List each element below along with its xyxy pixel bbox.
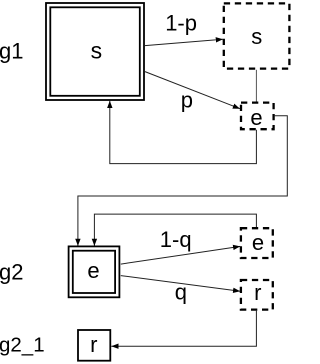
svg-text:1-p: 1-p (165, 10, 197, 35)
svg-text:e: e (252, 230, 264, 255)
svg-text:g2_1: g2_1 (0, 334, 45, 357)
svg-text:g1: g1 (0, 39, 23, 64)
svg-text:g2: g2 (0, 260, 23, 285)
svg-text:e: e (87, 258, 99, 283)
svg-text:r: r (254, 280, 261, 305)
svg-text:s: s (91, 38, 103, 64)
svg-text:r: r (90, 332, 97, 357)
svg-text:e: e (250, 105, 262, 130)
svg-text:1-q: 1-q (160, 227, 192, 252)
svg-text:q: q (175, 280, 187, 305)
svg-text:s: s (251, 24, 262, 49)
svg-text:p: p (181, 88, 193, 113)
